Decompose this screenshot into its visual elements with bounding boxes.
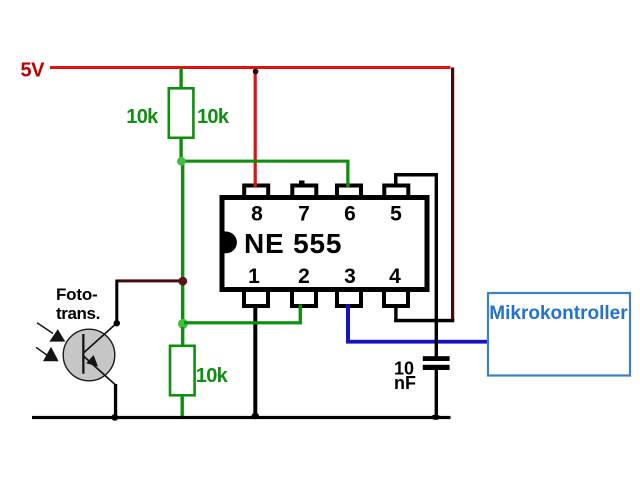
Q1 emitter arrow (86, 355, 98, 367)
pin 6 pad (335, 184, 363, 198)
svg-text:10k: 10k (196, 365, 229, 387)
light arrow 2 head (43, 347, 59, 361)
wire: maroon horizontal from phototransistor collector to node (116, 279, 183, 282)
wire: green horizontal node A to pin 6 column (183, 160, 350, 163)
box: Mikrokontroller (488, 293, 630, 376)
wire: pin 5 horizontal to right vertical (394, 173, 438, 177)
light arrow 2 line (36, 347, 48, 355)
pin 8 pad (242, 184, 270, 198)
svg-text:nF: nF (394, 373, 416, 393)
wire: long green vertical node A to node B (181, 160, 184, 323)
svg-text:Foto-: Foto- (56, 285, 97, 304)
wire: blue horizontal pin 3 to microcontroller box (346, 340, 488, 344)
svg-text:10k: 10k (197, 106, 230, 128)
svg-text:NE 555: NE 555 (244, 228, 342, 259)
wire: emitter down to ground rail (114, 384, 117, 418)
wire: pin 4 horizontal to maroon 5V drop (394, 319, 454, 323)
wire: pin 1 down to ground rail (253, 304, 257, 418)
resistor R2 10k (170, 346, 195, 396)
node A junction dot (177, 157, 186, 166)
wire: green drop into pin 6 (346, 160, 349, 187)
wire: R1 bottom to node A (179, 139, 182, 160)
wire: ground rail (32, 416, 451, 419)
op-amp/timer U1 NE555 body (220, 195, 430, 292)
svg-text:trans.: trans. (56, 304, 100, 323)
junction dot emitter/ground (111, 414, 118, 421)
light arrow 1 line (37, 323, 53, 334)
junction dot C1/ground (431, 415, 440, 420)
svg-text:8: 8 (251, 203, 263, 226)
svg-text:6: 6 (344, 203, 356, 226)
wire: R2 bottom to ground rail (181, 397, 184, 419)
wire: green horizontal node B to pin 2 column (184, 321, 302, 324)
wire: red drop 5V rail to pin 8 (254, 69, 257, 187)
capacitor C1 bottom plate (423, 365, 450, 370)
wire: collector up to maroon corner (115, 280, 118, 321)
light arrow 1 head (49, 329, 65, 341)
capacitor C1 top plate (423, 356, 450, 361)
svg-text:10k: 10k (126, 106, 159, 128)
wire: red overlap on pin 8 pad (254, 184, 257, 188)
pin 5 pad (382, 184, 410, 198)
svg-text:4: 4 (389, 265, 401, 288)
node B junction dot (178, 319, 188, 329)
pin 1 pad (242, 292, 270, 308)
wire: pin 5 stub up (394, 173, 398, 184)
pin 3 pad (335, 292, 363, 308)
svg-text:7: 7 (298, 203, 310, 226)
wire: pin 4 stub down (394, 304, 397, 322)
svg-text:1: 1 (248, 265, 260, 288)
svg-text:Mikrokontroller: Mikrokontroller (489, 303, 628, 324)
pin 7 pad (290, 184, 318, 198)
wire: green rise into pin 2 (299, 305, 302, 325)
wire: green stub 5V rail to R1 top (179, 68, 182, 88)
Q1 emitter diagonal (84, 357, 116, 386)
Q1 collector diagonal (84, 323, 117, 352)
U1 pin-1 index dot (220, 232, 237, 254)
wire: black vertical right of IC down to capacitor (435, 173, 438, 357)
pin 7 stub (299, 181, 305, 185)
svg-text:2: 2 (298, 265, 310, 288)
wire: C1 bottom lead to ground rail (435, 370, 438, 416)
junction dot pin1/ground (252, 413, 259, 419)
wire: maroon 5V drop to pin 4 (right side) (451, 68, 454, 322)
svg-text:5V: 5V (21, 60, 46, 82)
resistor R1 10k (169, 88, 194, 138)
svg-text:3: 3 (344, 265, 356, 288)
wire: 5V top rail (50, 66, 451, 69)
junction dot maroon on green vertical (178, 277, 187, 286)
junction dot collector (114, 320, 120, 326)
junction dot on 5V rail (253, 69, 259, 75)
Q1 base bar (82, 334, 84, 374)
wire: pin 3 blue stub down (346, 305, 350, 344)
transistor Q1 phototransistor body (63, 329, 115, 381)
wire: node B down to R2 (181, 327, 184, 346)
pin 2 pad (290, 292, 318, 308)
pin 4 pad (382, 292, 410, 308)
svg-text:5: 5 (390, 203, 402, 226)
wire: green overlap on pin 6 pad (346, 184, 349, 188)
